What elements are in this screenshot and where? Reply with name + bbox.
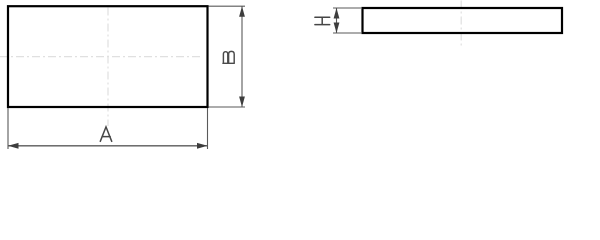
side view vertical centerline	[460, 1, 462, 49]
dimension H top arrowhead	[334, 8, 340, 19]
dimension H bottom extension line	[333, 32, 361, 34]
dimension B bottom arrowhead	[239, 97, 245, 108]
dimension A right arrowhead	[197, 143, 208, 149]
dimension H line	[336, 8, 338, 33]
label B (rotated)	[223, 51, 234, 63]
label H (rotated)	[315, 17, 330, 24]
dimension A line	[8, 145, 208, 147]
front view plate outline	[8, 6, 208, 107]
side view plate outline	[363, 8, 563, 33]
dimension A left extension line	[7, 108, 9, 149]
dimension B top arrowhead	[239, 6, 245, 17]
label A	[100, 127, 111, 141]
dimension B bottom extension line	[209, 106, 246, 108]
dimension B line	[241, 6, 243, 107]
dimension H top extension line	[333, 7, 361, 9]
front view horizontal centerline	[0, 56, 203, 58]
front view vertical centerline	[107, 8, 109, 127]
dimension H bottom arrowhead	[334, 23, 340, 34]
dimension A right extension line	[207, 108, 209, 149]
dimension A left arrowhead	[8, 143, 19, 149]
dimension B top extension line	[209, 5, 246, 7]
